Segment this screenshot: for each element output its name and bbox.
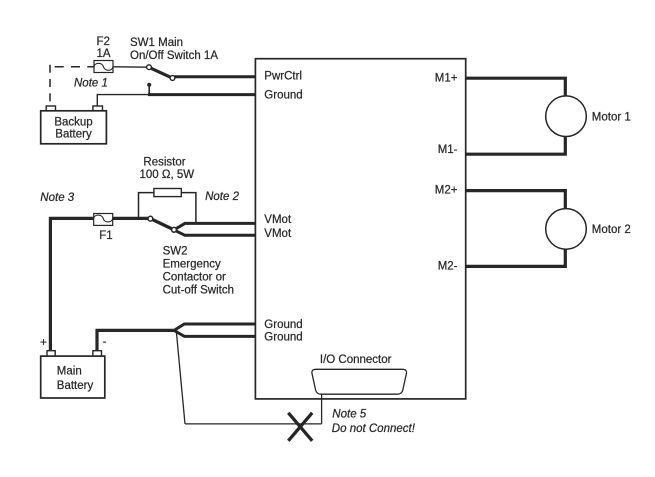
wire: Ground thick segment to controller (148, 93, 255, 96)
svg-text:Note 2: Note 2 (205, 191, 239, 203)
wire: resistor right leg (181, 193, 196, 224)
svg-text:Resistor: Resistor (143, 157, 185, 169)
switch SW2 left contact (148, 216, 153, 221)
svg-text:M2-: M2- (438, 261, 458, 273)
X do-not-connect mark (288, 413, 312, 441)
wire: SW2 to VMot lower (176, 231, 256, 236)
svg-text:Backup: Backup (54, 116, 92, 128)
wire: motor 2 to M2- (466, 249, 566, 266)
wire: resistor left leg (139, 193, 154, 219)
svg-text:M2+: M2+ (435, 185, 458, 197)
svg-text:VMot: VMot (264, 228, 292, 240)
svg-text:SW2: SW2 (163, 246, 188, 258)
svg-text:1A: 1A (97, 48, 111, 60)
svg-text:Note 5: Note 5 (332, 409, 366, 421)
motor M1 (546, 96, 587, 137)
svg-text:Main: Main (57, 365, 82, 377)
main battery BT1 (41, 351, 105, 398)
svg-text:Motor 1: Motor 1 (592, 111, 631, 123)
wire: motor 1 to M1- (466, 137, 566, 155)
wire: thin horizontal do-not-connect (185, 423, 322, 425)
controller box U1 (255, 59, 465, 399)
backup battery BT2 (41, 106, 107, 144)
switch SW2 blade (152, 219, 174, 229)
wire: Ground (backup) battery to controller (97, 95, 149, 107)
switch SW1 blade (150, 68, 172, 78)
motor M2 (546, 209, 587, 250)
switch SW2 right contact (172, 227, 177, 232)
fuse F2 (94, 61, 113, 73)
svg-text:-: - (103, 334, 107, 348)
svg-text:F1: F1 (99, 230, 112, 242)
wire: chevron to Ground lower (175, 331, 255, 336)
svg-text:+: + (40, 335, 47, 349)
wire: thin riser to I/O connector (321, 381, 323, 424)
wire: main battery + to SW2 (50, 218, 149, 351)
fuse F1 (94, 214, 113, 226)
wire: main battery - to ground chevron (97, 330, 176, 351)
svg-text:M1-: M1- (438, 144, 458, 156)
svg-text:Cut-off Switch: Cut-off Switch (163, 285, 234, 297)
svg-text:F2: F2 (97, 36, 110, 48)
svg-text:Do not Connect!: Do not Connect! (332, 423, 416, 435)
wire: chevron to Ground upper (175, 324, 255, 330)
svg-text:M1+: M1+ (435, 73, 458, 85)
svg-text:Contactor or: Contactor or (163, 272, 226, 284)
wire: M2+ to motor 2 (466, 191, 566, 209)
svg-text:Motor 2: Motor 2 (592, 224, 631, 236)
wire: thin ground tap diagonal (176, 331, 185, 424)
svg-text:100 Ω, 5W: 100 Ω, 5W (140, 169, 195, 181)
svg-text:Battery: Battery (55, 129, 92, 141)
wire: PwrCtrl from SW1 to controller (174, 75, 256, 78)
svg-text:On/Off Switch 1A: On/Off Switch 1A (130, 50, 218, 62)
svg-text:PwrCtrl: PwrCtrl (264, 71, 302, 83)
wire: SW2 to VMot upper (176, 223, 256, 228)
node: SW1 lower contact dot (147, 83, 151, 95)
svg-text:Emergency: Emergency (163, 259, 221, 271)
svg-text:Ground: Ground (264, 319, 302, 331)
switch SW1 right contact (170, 76, 175, 81)
svg-text:Ground: Ground (264, 332, 302, 344)
svg-text:Note 3: Note 3 (40, 192, 74, 204)
svg-text:Ground: Ground (264, 90, 302, 102)
svg-text:Note 1: Note 1 (74, 78, 108, 90)
svg-text:Battery: Battery (57, 380, 94, 392)
switch SW1 left contact (147, 65, 152, 70)
wire: fuse F2 to SW1 (113, 66, 147, 68)
svg-text:SW1 Main: SW1 Main (130, 37, 183, 49)
svg-text:I/O Connector: I/O Connector (320, 354, 392, 366)
resistor R1 100 ohm (154, 189, 181, 197)
wire: M1+ to motor 1 (466, 78, 566, 96)
wire: dashed from backup battery to fuse F2 (50, 65, 94, 106)
svg-text:VMot: VMot (264, 214, 292, 226)
I/O connector J1 (312, 369, 407, 394)
